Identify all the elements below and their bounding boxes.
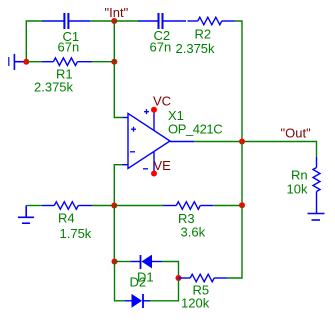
wire left bus down to diodes [113, 206, 115, 262]
wire R1 to left bus [92, 61, 114, 63]
wire top-left vertical [26, 21, 42, 62]
svg-text:Rn: Rn [291, 168, 308, 183]
resistor R1 [42, 58, 92, 66]
svg-text:D2: D2 [130, 275, 147, 290]
wire C1 to Int node [90, 20, 114, 22]
minus power marker [143, 168, 148, 170]
svg-text:R2: R2 [195, 27, 212, 42]
diode D2 [125, 294, 150, 308]
wire R3 to right bus [213, 205, 242, 207]
junction R1/bus [111, 59, 117, 65]
diode D1 [130, 255, 162, 269]
svg-text:"Out": "Out" [281, 126, 312, 141]
resistor R4 [42, 202, 92, 210]
capacitor C1 [42, 13, 90, 29]
svg-text:I: I [7, 54, 11, 69]
svg-text:1.75k: 1.75k [60, 226, 92, 241]
svg-text:R4: R4 [58, 211, 75, 226]
wire to D1 [115, 261, 131, 263]
svg-text:2.375k: 2.375k [176, 41, 216, 56]
plus input marker [131, 127, 136, 132]
wire output to Out node [194, 142, 317, 158]
wire R5 up to bottom-right junction [228, 205, 242, 278]
junction output bus [239, 139, 245, 145]
ground left [18, 206, 34, 224]
svg-text:10k: 10k [287, 182, 308, 197]
minus input marker [130, 151, 135, 153]
wire rail junction to R3 [114, 205, 163, 207]
wire right bus to bottom rail [241, 142, 243, 206]
resistor Rn (vertical) [313, 157, 320, 213]
wire -input to left bus down [114, 165, 121, 206]
ground under Rn [308, 214, 325, 221]
input pin symbol [14, 54, 25, 70]
wire R2 to right bus corner [235, 21, 243, 142]
plus power marker [144, 109, 149, 114]
svg-text:OP_421C: OP_421C [168, 122, 223, 137]
wire D1 to right corner, down to R5 junction [162, 262, 179, 279]
op-amp U X1 [122, 110, 194, 174]
svg-text:67n: 67n [58, 40, 80, 55]
wire Int bus down to +input [114, 21, 122, 118]
svg-text:VE: VE [154, 158, 172, 173]
VC pin dot [151, 107, 157, 113]
svg-text:120k: 120k [181, 296, 210, 311]
wire input to R1 [26, 61, 42, 63]
capacitor C2 [138, 13, 186, 29]
svg-text:67n: 67n [150, 40, 172, 55]
wire down to D2 branch [150, 278, 179, 301]
svg-text:VC: VC [153, 94, 171, 109]
junction diode top-left [112, 259, 118, 265]
resistor R5 [179, 274, 228, 282]
svg-text:2.375k: 2.375k [34, 80, 74, 95]
junction bottom-right rail [239, 202, 245, 208]
junction R5/diodes [176, 275, 182, 281]
junction bottom-left rail [111, 203, 117, 209]
junction Int [111, 18, 117, 24]
wire ground to R4 [26, 205, 42, 207]
svg-text:3.6k: 3.6k [181, 225, 206, 240]
resistor R2 [188, 17, 235, 25]
junction input [23, 59, 29, 65]
wire Int to C2 [114, 20, 138, 22]
VE pin dot [151, 171, 157, 177]
wire R4 to rail junction [92, 205, 114, 207]
svg-text:"Int": "Int" [105, 5, 129, 20]
resistor R3 [163, 202, 213, 210]
wire D2 to left, up to diode junction [115, 262, 126, 301]
